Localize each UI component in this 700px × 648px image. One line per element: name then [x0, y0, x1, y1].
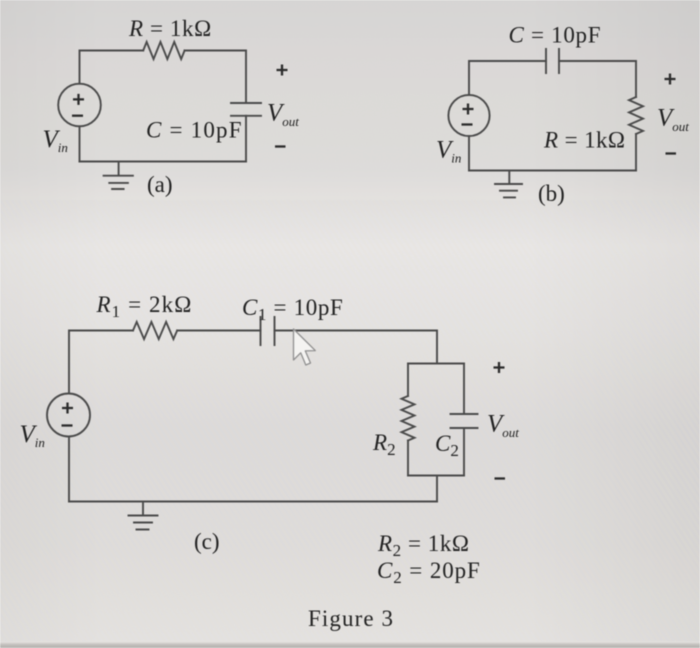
capacitor C2 (c) [451, 414, 478, 428]
svg-text:(c): (c) [194, 529, 220, 554]
wire: (c) bottom segment [69, 501, 437, 503]
wire: (c) parallel box bottom [408, 475, 464, 477]
wire: R2 branch top [407, 364, 409, 397]
voltage source Vin (b) [448, 95, 489, 136]
svg-text:R2 = 1kΩ: R2 = 1kΩ [377, 531, 470, 560]
wire: (b) top-right segment [559, 61, 636, 97]
svg-text:C = 10pF: C = 10pF [146, 118, 243, 143]
svg-text:Figure 3: Figure 3 [308, 606, 394, 631]
wire: C2 branch bottom [463, 428, 465, 476]
svg-text:C1 = 10pF: C1 = 10pF [242, 295, 343, 324]
plus sign inside source (b) [463, 104, 474, 115]
svg-text:R = 1kΩ: R = 1kΩ [128, 16, 212, 41]
resistor R (b) [629, 97, 643, 134]
resistor R2 (c) [402, 396, 415, 440]
minus sign inside source (b) [462, 123, 473, 125]
capacitor C (a) [231, 103, 261, 116]
wire: R2 branch bottom [407, 441, 409, 476]
svg-text:C = 10pF: C = 10pF [509, 23, 602, 48]
wire: (c) top-left segment [69, 331, 133, 394]
minus sign output (a) [275, 145, 286, 147]
ground (a) [104, 162, 133, 190]
wire: C2 branch top [463, 364, 465, 415]
wire: (b) right-bottom segment [635, 134, 637, 171]
plus sign output (b) [665, 74, 676, 85]
capacitor C1 (c) [261, 317, 275, 345]
plus sign output (a) [277, 65, 288, 76]
wire: (c) parallel box top [408, 363, 464, 365]
wire: (a) right-bottom segment [245, 116, 247, 162]
plus sign inside source (c) [62, 403, 73, 414]
wire: (b) bottom segment [469, 170, 636, 172]
wire: (a) top-left segment [80, 51, 144, 84]
minus sign output (c) [495, 477, 506, 479]
minus sign inside source (c) [62, 424, 73, 426]
ground (b) [495, 171, 522, 198]
wire: (c) top-right segment [275, 331, 438, 364]
svg-text:R1 = 2kΩ: R1 = 2kΩ [96, 292, 193, 321]
mouse cursor [294, 329, 316, 365]
wire: (a) bottom segment [80, 161, 247, 163]
wire: (c) left-bottom segment [68, 437, 70, 502]
wire: (a) left-bottom segment [79, 126, 81, 161]
wire: (b) left-bottom segment [468, 136, 470, 170]
capacitor C (b) [546, 49, 559, 73]
plus sign inside source (a) [73, 94, 84, 105]
minus sign inside source (a) [72, 115, 83, 117]
voltage source Vin (a) [58, 84, 101, 127]
wire: (b) top-left segment [469, 61, 546, 95]
svg-text:R = 1kΩ: R = 1kΩ [543, 128, 625, 153]
resistor R1 (c) [133, 322, 177, 339]
wire: (a) top-right segment [185, 51, 246, 104]
svg-text:(b): (b) [538, 181, 565, 206]
wire: (c) top-middle segment [177, 330, 260, 332]
svg-text:C2 = 20pF: C2 = 20pF [377, 558, 481, 587]
svg-text:(a): (a) [147, 172, 173, 197]
voltage source Vin (c) [47, 394, 90, 437]
resistor R (a) [143, 42, 184, 59]
wire: (c) output stem [436, 476, 438, 502]
ground (c) [129, 502, 158, 530]
minus sign output (b) [666, 152, 677, 154]
plus sign output (c) [494, 362, 505, 373]
